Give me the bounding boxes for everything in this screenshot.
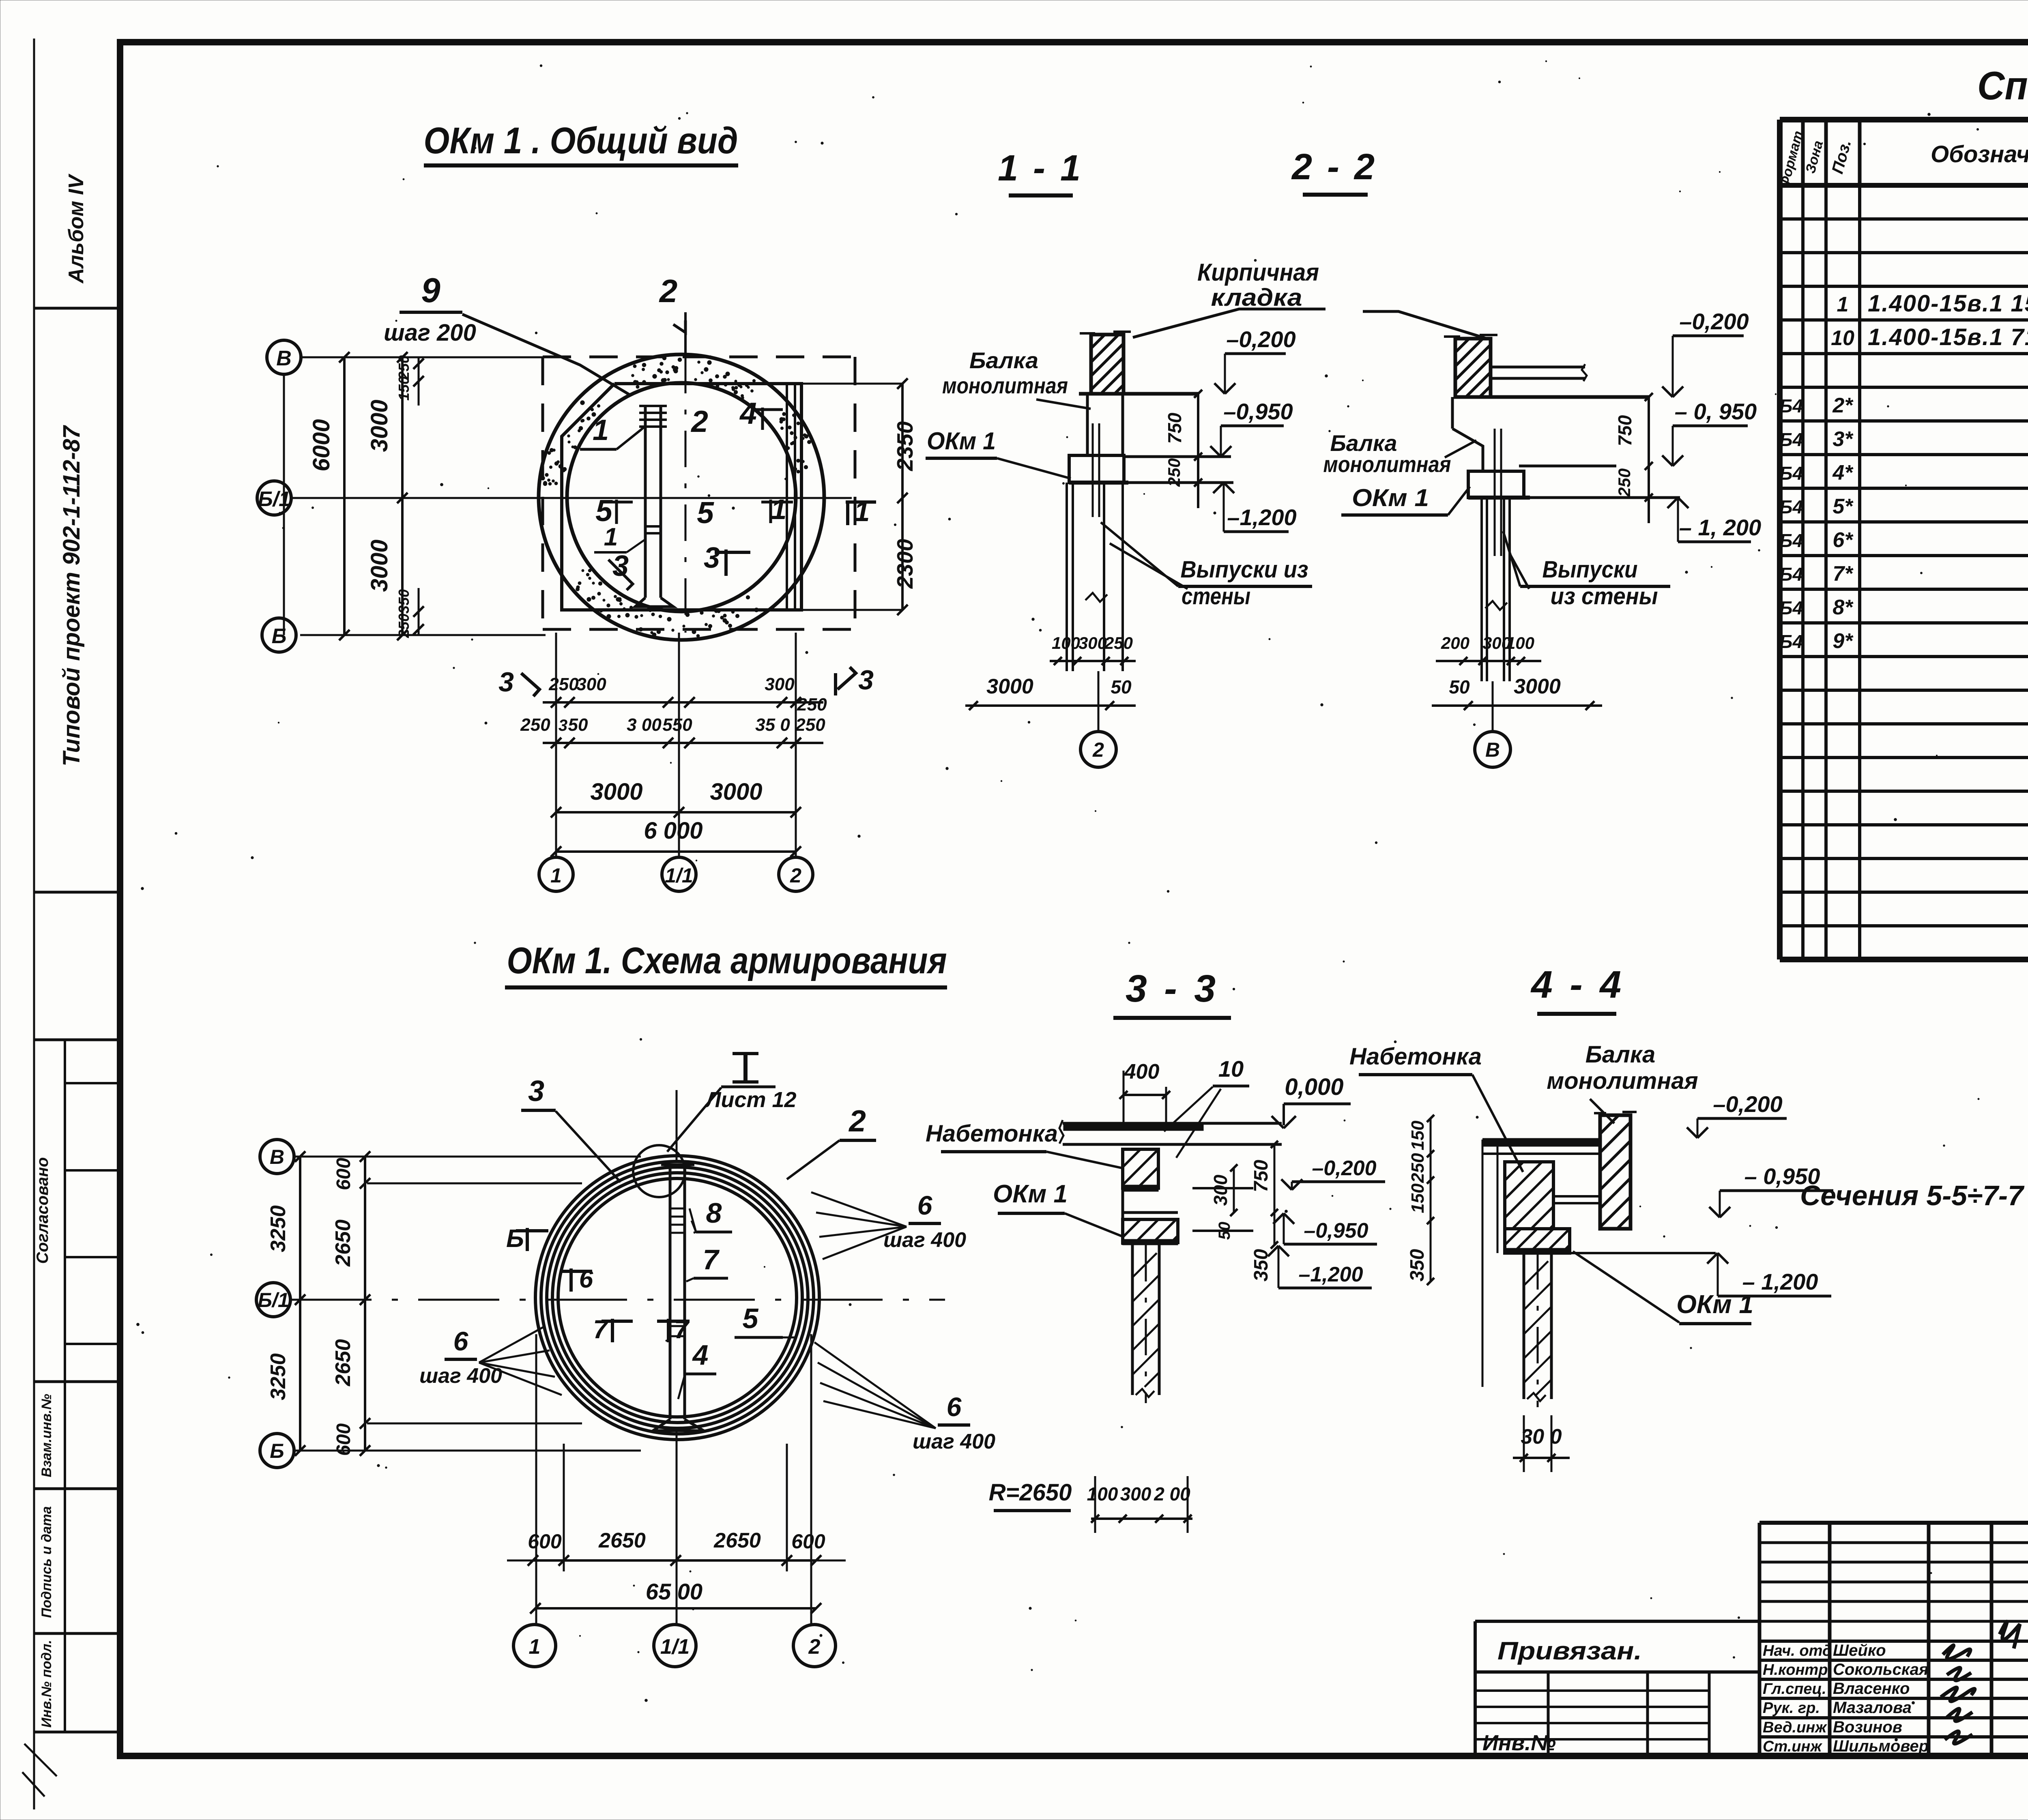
- svg-text:из стены: из стены: [1551, 583, 1658, 610]
- svg-text:–0,200: –0,200: [1312, 1157, 1376, 1180]
- svg-text:Альбом IV: Альбом IV: [64, 173, 88, 284]
- svg-text:250: 250: [795, 715, 825, 735]
- svg-text:600: 600: [333, 1158, 354, 1190]
- svg-text:300: 300: [576, 674, 606, 694]
- svg-text:5: 5: [743, 1303, 759, 1334]
- svg-text:монолитная: монолитная: [1547, 1068, 1698, 1094]
- svg-text:2650: 2650: [713, 1529, 761, 1552]
- svg-text:Б4: Б4: [1779, 395, 1803, 416]
- svg-text:250: 250: [548, 674, 579, 694]
- svg-text:Б4: Б4: [1779, 597, 1803, 618]
- svg-text:4: 4: [692, 1339, 709, 1371]
- svg-text:2300: 2300: [892, 539, 917, 589]
- svg-text:8*: 8*: [1833, 596, 1854, 619]
- svg-text:Инв.№ подл.: Инв.№ подл.: [39, 1640, 54, 1728]
- svg-text:3250: 3250: [266, 1353, 290, 1400]
- svg-text:–1,200: –1,200: [1227, 504, 1296, 530]
- svg-text:400: 400: [1124, 1060, 1160, 1084]
- svg-text:В: В: [270, 1146, 284, 1168]
- svg-text:3000: 3000: [710, 779, 762, 805]
- svg-text:3: 3: [704, 542, 720, 574]
- svg-text:1: 1: [1837, 293, 1849, 316]
- svg-text:ОКм 1: ОКм 1: [993, 1180, 1068, 1208]
- svg-text:4*: 4*: [1832, 461, 1854, 485]
- svg-text:600: 600: [791, 1530, 825, 1553]
- svg-text:6 000: 6 000: [644, 818, 702, 844]
- svg-text:200: 200: [1441, 633, 1469, 652]
- svg-text:3: 3: [559, 717, 567, 734]
- svg-text:Вед.инж: Вед.инж: [1763, 1719, 1827, 1736]
- svg-text:–0,200: –0,200: [1713, 1091, 1782, 1117]
- svg-text:5: 5: [697, 496, 714, 530]
- svg-text:5*: 5*: [1833, 495, 1854, 518]
- svg-text:1: 1: [771, 494, 787, 525]
- svg-text:Б4: Б4: [1779, 631, 1803, 652]
- svg-text:6: 6: [579, 1265, 593, 1293]
- svg-text:5: 5: [595, 494, 613, 528]
- svg-text:шаг 400: шаг 400: [913, 1430, 995, 1453]
- svg-text:ОКм 1. Схема армирования: ОКм 1. Схема армирования: [507, 940, 947, 981]
- svg-text:6: 6: [947, 1392, 962, 1422]
- svg-text:Б4: Б4: [1779, 496, 1803, 517]
- svg-text:Обозначение: Обозначение: [1931, 141, 2028, 167]
- svg-text:250: 250: [395, 614, 412, 638]
- svg-text:Б/1: Б/1: [258, 487, 290, 511]
- svg-text:Спецификация ОКм1.: Спецификация ОКм1.: [1977, 63, 2028, 108]
- svg-text:1: 1: [529, 1635, 541, 1659]
- svg-text:100: 100: [1506, 633, 1534, 652]
- svg-text:7*: 7*: [1833, 562, 1854, 586]
- svg-text:монолитная: монолитная: [1323, 451, 1451, 477]
- svg-text:2 00: 2 00: [1154, 1483, 1190, 1505]
- svg-text:750: 750: [1250, 1160, 1272, 1192]
- svg-text:R=2650: R=2650: [989, 1479, 1072, 1506]
- svg-text:Типовой проект 902-1-112-87: Типовой проект 902-1-112-87: [58, 425, 85, 766]
- svg-text:350: 350: [395, 589, 412, 614]
- svg-text:3*: 3*: [1833, 427, 1854, 451]
- svg-text:2650: 2650: [331, 1219, 355, 1267]
- svg-text:50: 50: [568, 715, 588, 735]
- svg-text:2: 2: [659, 273, 678, 309]
- svg-text:2: 2: [848, 1104, 866, 1138]
- svg-text:350: 350: [1407, 1249, 1428, 1281]
- svg-text:Сокольская: Сокольская: [1833, 1661, 1928, 1678]
- svg-text:2: 2: [790, 864, 801, 887]
- svg-text:Кирпичная: Кирпичная: [1197, 259, 1319, 286]
- svg-text:стены: стены: [1182, 583, 1250, 610]
- svg-text:ОКм 1: ОКм 1: [1676, 1290, 1753, 1319]
- svg-text:ОКм 1: ОКм 1: [1352, 484, 1429, 511]
- svg-text:50: 50: [1216, 1222, 1233, 1240]
- svg-text:– 0, 950: – 0, 950: [1675, 399, 1757, 424]
- svg-text:2650: 2650: [598, 1529, 646, 1552]
- svg-text:6: 6: [453, 1326, 469, 1356]
- svg-text:шаг 200: шаг 200: [384, 320, 476, 346]
- svg-text:300: 300: [1078, 633, 1107, 652]
- svg-text:2 - 2: 2 - 2: [1291, 147, 1377, 187]
- svg-text:3: 3: [528, 1075, 544, 1107]
- svg-text:Б4: Б4: [1779, 463, 1803, 484]
- svg-text:7: 7: [674, 1315, 690, 1344]
- svg-text:2: 2: [808, 1635, 821, 1659]
- svg-text:1/1: 1/1: [660, 1635, 690, 1659]
- svg-text:Ст.инж: Ст.инж: [1763, 1738, 1822, 1755]
- svg-text:3: 3: [858, 665, 874, 695]
- svg-text:кладка: кладка: [1211, 284, 1302, 311]
- svg-text:9: 9: [421, 271, 440, 310]
- svg-text:В: В: [1485, 738, 1500, 761]
- svg-text:3000: 3000: [1514, 675, 1561, 698]
- svg-text:–0,950: –0,950: [1223, 399, 1293, 424]
- svg-text:250: 250: [1164, 458, 1184, 487]
- svg-text:100: 100: [1087, 1483, 1118, 1505]
- svg-text:4 - 4: 4 - 4: [1530, 963, 1624, 1006]
- svg-text:2: 2: [1092, 738, 1104, 761]
- svg-text:1/1: 1/1: [665, 864, 693, 887]
- svg-text:150: 150: [1408, 1120, 1428, 1150]
- svg-text:В: В: [276, 347, 292, 370]
- svg-text:7: 7: [703, 1244, 720, 1275]
- svg-text:Выпуски из: Выпуски из: [1181, 556, 1308, 583]
- svg-text:50: 50: [1449, 676, 1470, 698]
- svg-text:Взам.инв.№: Взам.инв.№: [39, 1394, 54, 1477]
- svg-text:7: 7: [593, 1315, 609, 1344]
- svg-text:ОКм 1: ОКм 1: [927, 427, 996, 455]
- svg-text:Выпуски: Выпуски: [1542, 556, 1638, 583]
- svg-text:монолитная: монолитная: [942, 373, 1068, 398]
- svg-text:3: 3: [498, 667, 514, 698]
- svg-text:10: 10: [1831, 326, 1854, 350]
- svg-text:Набетонка: Набетонка: [1349, 1043, 1482, 1070]
- svg-text:Б: Б: [270, 1440, 284, 1462]
- svg-text:Мазалова: Мазалова: [1833, 1699, 1912, 1717]
- svg-text:Шейко: Шейко: [1833, 1642, 1886, 1659]
- svg-text:–1,200: –1,200: [1298, 1263, 1363, 1286]
- svg-text:10: 10: [1218, 1056, 1244, 1082]
- svg-text:Балка: Балка: [1585, 1041, 1655, 1068]
- svg-text:2: 2: [690, 404, 708, 438]
- svg-text:3000: 3000: [590, 779, 642, 805]
- svg-text:Балка: Балка: [969, 348, 1038, 373]
- svg-text:8: 8: [706, 1197, 722, 1229]
- svg-text:Инв.№: Инв.№: [1482, 1731, 1556, 1755]
- svg-text:35 0: 35 0: [755, 715, 790, 735]
- svg-text:–0,200: –0,200: [1679, 309, 1749, 334]
- svg-text:– 1,200: – 1,200: [1742, 1269, 1818, 1294]
- svg-text:6: 6: [917, 1190, 933, 1220]
- svg-text:Рук. гр.: Рук. гр.: [1763, 1700, 1820, 1717]
- svg-text:6000: 6000: [308, 419, 335, 471]
- svg-text:Б4: Б4: [1779, 530, 1803, 551]
- svg-text:600: 600: [333, 1423, 354, 1456]
- svg-text:2*: 2*: [1832, 394, 1854, 417]
- svg-text:1 - 1: 1 - 1: [998, 148, 1083, 189]
- svg-text:Б4: Б4: [1779, 429, 1803, 450]
- svg-text:3 - 3: 3 - 3: [1126, 967, 1219, 1010]
- svg-text:Подпись и дата: Подпись и дата: [39, 1506, 54, 1618]
- svg-text:9*: 9*: [1833, 629, 1854, 653]
- svg-text:Гл.спец.: Гл.спец.: [1763, 1680, 1826, 1698]
- svg-text:Б4: Б4: [1779, 564, 1803, 585]
- svg-text:6*: 6*: [1833, 528, 1854, 552]
- svg-text:4: 4: [739, 396, 757, 430]
- svg-text:Возинов: Возинов: [1833, 1718, 1902, 1736]
- svg-text:250: 250: [1104, 633, 1133, 652]
- svg-text:–0,950: –0,950: [1304, 1219, 1368, 1243]
- svg-text:300: 300: [1120, 1483, 1151, 1505]
- svg-text:ОКм 1 . Общий вид: ОКм 1 . Общий вид: [424, 120, 738, 161]
- svg-text:3000: 3000: [366, 539, 393, 592]
- svg-text:30 0: 30 0: [1521, 1425, 1562, 1449]
- svg-text:300: 300: [1210, 1174, 1231, 1206]
- svg-text:100: 100: [1052, 633, 1080, 652]
- svg-text:Б/1: Б/1: [258, 1289, 289, 1311]
- svg-text:– 1, 200: – 1, 200: [1679, 515, 1761, 540]
- svg-text:1.400-15в.1 150-68: 1.400-15в.1 150-68: [1868, 290, 2028, 317]
- svg-text:65 00: 65 00: [646, 1579, 702, 1604]
- svg-text:0,000: 0,000: [1285, 1074, 1343, 1100]
- svg-text:Б: Б: [506, 1225, 524, 1253]
- svg-text:1.400-15в.1 710-06: 1.400-15в.1 710-06: [1868, 324, 2028, 350]
- svg-text:300: 300: [765, 674, 795, 694]
- svg-text:2650: 2650: [331, 1339, 355, 1386]
- svg-text:250: 250: [1615, 468, 1634, 497]
- svg-text:3000: 3000: [366, 399, 393, 452]
- svg-text:3 00: 3 00: [627, 715, 662, 735]
- svg-text:–0,200: –0,200: [1226, 326, 1295, 352]
- svg-text:Нач. отд: Нач. отд: [1763, 1642, 1832, 1659]
- svg-text:150: 150: [1408, 1183, 1428, 1213]
- svg-text:600: 600: [528, 1530, 562, 1553]
- svg-text:750: 750: [1164, 412, 1185, 444]
- svg-text:1: 1: [550, 864, 562, 887]
- svg-text:Привязан.: Привязан.: [1497, 1637, 1642, 1665]
- svg-text:550: 550: [662, 715, 692, 735]
- svg-text:250: 250: [520, 715, 550, 735]
- svg-text:1: 1: [604, 523, 618, 551]
- svg-text:150: 150: [395, 376, 412, 401]
- svg-text:2350: 2350: [892, 421, 917, 471]
- svg-text:Сечения 5-5÷7-7 см на листе: Сечения 5-5÷7-7 см на листе 12.: [1800, 1180, 2028, 1211]
- svg-text:750: 750: [1614, 415, 1635, 446]
- svg-text:Н.контр: Н.контр: [1763, 1661, 1828, 1678]
- svg-text:250: 250: [797, 695, 827, 715]
- svg-text:3000: 3000: [986, 675, 1033, 698]
- svg-text:3250: 3250: [266, 1205, 290, 1252]
- svg-text:Власенко: Власенко: [1833, 1680, 1910, 1698]
- svg-text:1: 1: [593, 414, 609, 446]
- svg-text:Шильмовер: Шильмовер: [1833, 1737, 1929, 1755]
- svg-text:250: 250: [1408, 1153, 1428, 1183]
- svg-text:1: 1: [854, 496, 870, 527]
- svg-text:50: 50: [1111, 676, 1132, 698]
- svg-text:Согласовано: Согласовано: [34, 1157, 52, 1264]
- svg-text:Набетонка: Набетонка: [926, 1120, 1058, 1147]
- svg-text:250: 250: [395, 355, 412, 380]
